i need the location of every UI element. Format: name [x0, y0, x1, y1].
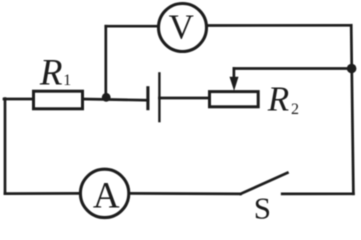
wire battery to R2: [159, 97, 209, 100]
wire top left to voltmeter: [106, 25, 159, 28]
rheostat R2: [210, 92, 259, 107]
wire rheostat wiper horizontal feed: [234, 67, 352, 70]
battery cell long plate (positive): [158, 72, 160, 122]
wire ammeter to switch: [129, 192, 241, 195]
svg-text:S: S: [254, 190, 271, 220]
wire switch to bottom right corner: [282, 192, 353, 195]
rheostat wiper arrowhead: [230, 77, 239, 91]
wire left horizontal to R1: [4, 98, 34, 101]
node junction dot left: [102, 93, 111, 102]
wire rheostat wiper vertical drop: [233, 69, 236, 80]
wire R1 to battery: [82, 99, 148, 100]
svg-text:A: A: [93, 175, 120, 216]
battery cell short plate (negative): [146, 86, 149, 110]
node junction dot right: [347, 64, 357, 74]
svg-text:R: R: [39, 52, 63, 93]
wire left vertical side: [4, 99, 7, 194]
svg-text:V: V: [169, 8, 194, 47]
resistor R1: [34, 91, 83, 109]
svg-text:2: 2: [291, 101, 299, 118]
wire vertical riser from node to top: [104, 26, 107, 99]
svg-text:1: 1: [63, 72, 71, 89]
switch S blade: [241, 173, 288, 194]
ammeter A: [80, 169, 128, 217]
svg-text:R: R: [267, 80, 289, 119]
wire voltmeter to top right corner: [207, 24, 352, 27]
voltmeter V: [159, 4, 207, 52]
wire right vertical side: [351, 25, 353, 194]
wire bottom left to ammeter: [5, 192, 81, 195]
